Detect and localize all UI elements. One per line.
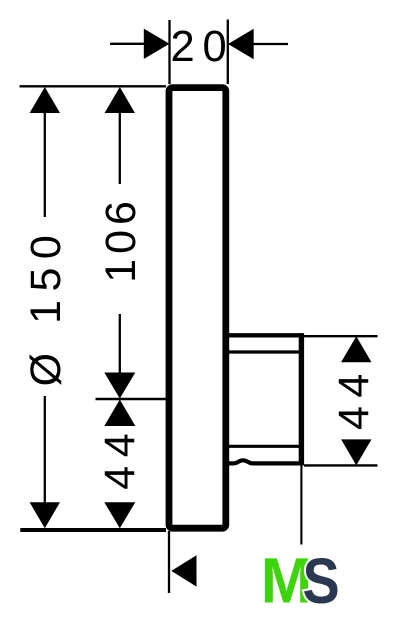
wire: tick line at 106/44 boundary: [96, 398, 167, 400]
wire: function-box right edge: [299, 333, 304, 465]
dimension 44 right: bottom arrowhead pointing down: [341, 439, 371, 465]
dimension D150: lower dim line segment: [44, 396, 46, 504]
dimension D150: bottom arrowhead pointing down: [30, 502, 60, 528]
marker: wall arrowhead pointing left: [171, 555, 196, 586]
wire: function-box top edge: [225, 333, 302, 337]
dimension 106: lower dim line segment: [119, 314, 121, 376]
dimension 20: right leader line: [252, 43, 288, 45]
wire: top horizontal extension line (plate top reference): [20, 85, 167, 87]
dimension 106: bottom arrowhead pointing down (bowtie top): [104, 373, 135, 399]
wire: function-box inner bottom line: [228, 445, 300, 448]
wire: function-box bottom edge with break squiggle: [225, 460, 302, 463]
svg-text:44: 44: [96, 425, 144, 490]
dimension 106: upper dim line segment: [119, 111, 121, 184]
wire: extension line right of dim 20: [227, 20, 229, 85]
dimension 44 left: bottom arrowhead pointing down: [104, 502, 135, 528]
dimension 44 right: top arrowhead pointing up: [341, 336, 371, 362]
dimension 20: left leader line: [110, 43, 145, 45]
svg-text:Ø 150: Ø 150: [22, 227, 70, 387]
dimension 20: right arrowhead pointing left: [228, 29, 254, 59]
plate outline (escutcheon, front plate, thick rounded rectangle): [169, 88, 226, 529]
svg-text:44: 44: [330, 365, 378, 430]
svg-text:106: 106: [97, 196, 145, 283]
svg-text:S: S: [303, 546, 340, 617]
wire: extension line top of right dim 44: [304, 335, 378, 337]
wire: thin vertical extension below function box: [300, 466, 302, 545]
wire: extension line bottom of right dim 44: [304, 464, 378, 466]
wire: function-box inner top line: [228, 350, 300, 353]
svg-text:20: 20: [171, 23, 235, 71]
dimension 44 left: top arrowhead pointing up (bowtie bottom): [104, 400, 135, 427]
dimension 20: left arrowhead pointing right: [144, 29, 170, 59]
dimension D150: top arrowhead pointing up: [30, 87, 60, 113]
wire: bottom horizontal extension line (plate bottom reference): [20, 528, 166, 532]
dimension 106: top arrowhead pointing up: [105, 87, 135, 113]
wire: extension line left of dim 20: [168, 20, 170, 84]
dimension D150: upper dim line segment: [44, 111, 46, 217]
wire: wall reference line below plate: [168, 531, 170, 593]
